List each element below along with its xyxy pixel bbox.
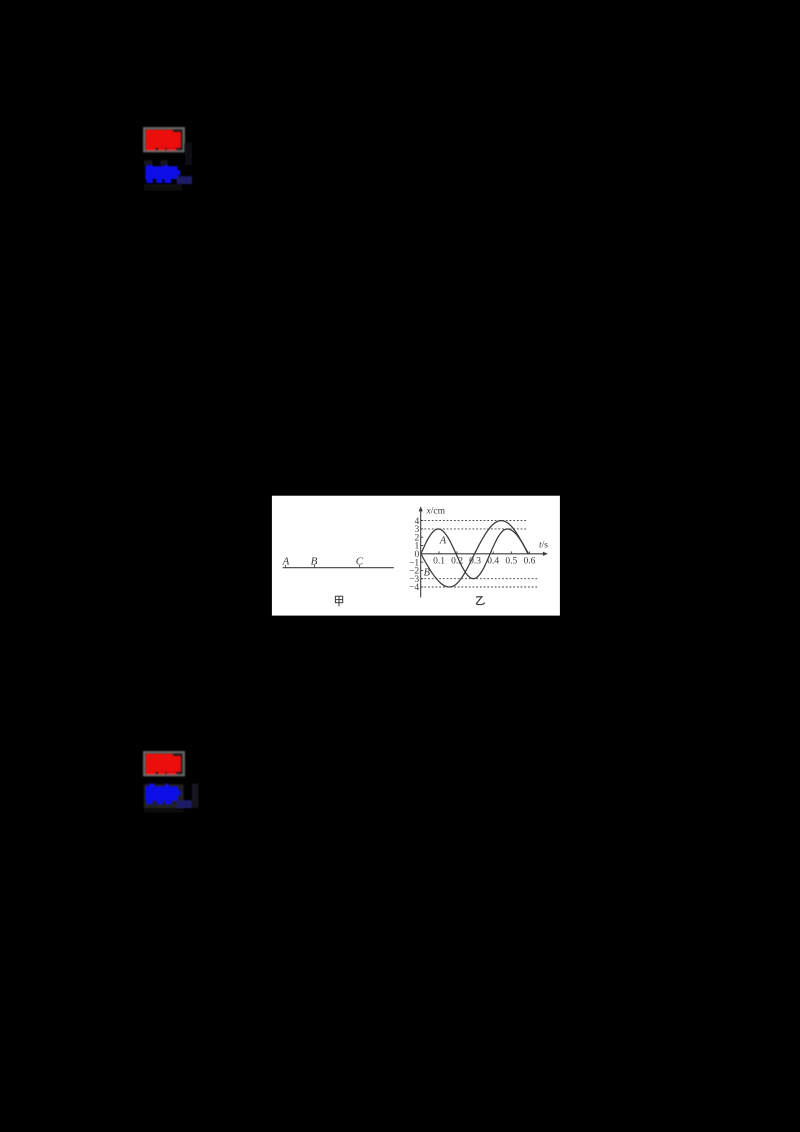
figure jia: medium line with points A B C xyxy=(283,565,394,568)
svg-text:0.5: 0.5 xyxy=(505,557,517,567)
label group 1: blue answer text xyxy=(145,165,192,184)
svg-text:B: B xyxy=(424,568,431,579)
y ticks xyxy=(421,521,424,587)
svg-text:A: A xyxy=(282,556,290,568)
label group 1: red example box xyxy=(144,128,184,151)
svg-text:t/s: t/s xyxy=(539,540,548,550)
graph axes xyxy=(419,506,548,597)
svg-text:A: A xyxy=(439,536,447,547)
label group 2: blue answer text xyxy=(145,784,192,809)
svg-text:x/cm: x/cm xyxy=(426,507,446,517)
svg-text:0.4: 0.4 xyxy=(487,557,499,567)
axis number labels xyxy=(409,517,419,593)
jia glyph (CJK first) xyxy=(335,596,342,606)
yi glyph (CJK second) xyxy=(476,597,484,605)
svg-text:C: C xyxy=(356,556,364,568)
svg-text:0.6: 0.6 xyxy=(523,557,535,567)
label group 2: red example box xyxy=(144,752,184,775)
svg-text:−4: −4 xyxy=(409,583,419,593)
t ticks xyxy=(439,551,529,553)
svg-text:B: B xyxy=(311,556,318,568)
figure panel xyxy=(272,496,560,616)
label group 1: faint remnants xyxy=(144,143,192,191)
curve A xyxy=(421,529,529,579)
svg-text:0.1: 0.1 xyxy=(433,557,445,567)
curve B xyxy=(421,521,528,587)
label group 2: gray backing and remnants xyxy=(144,783,198,812)
dashed guide lines xyxy=(421,521,540,587)
